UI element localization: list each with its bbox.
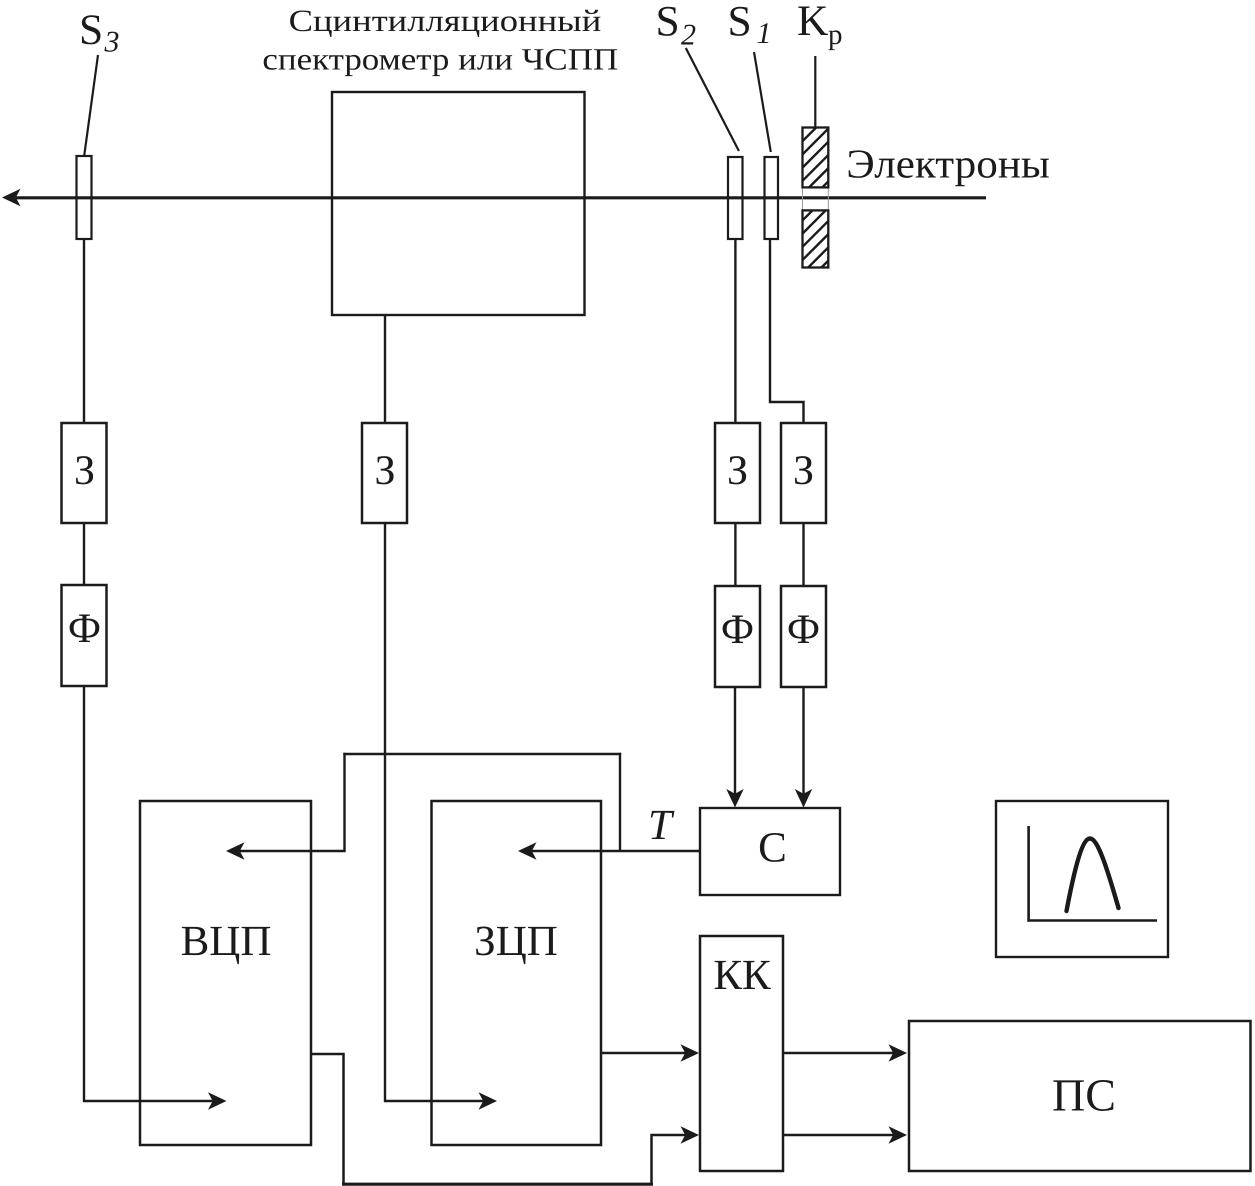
wire KK to PS lower xyxy=(783,1134,894,1136)
wire T branch up xyxy=(619,753,621,851)
svg-text:З: З xyxy=(74,448,95,494)
svg-text:S: S xyxy=(656,0,680,46)
converter block VCP xyxy=(140,801,311,1145)
wire T branch down xyxy=(343,753,345,851)
arrowhead into C from S1 xyxy=(795,789,812,808)
svg-text:З: З xyxy=(793,448,814,494)
leader line S1 xyxy=(754,52,771,152)
computer block PS xyxy=(909,1021,1251,1171)
svg-text:p: p xyxy=(828,19,843,51)
svg-text:2: 2 xyxy=(681,19,696,52)
collimator Kp bottom block xyxy=(803,210,829,267)
arrowhead into PS upper xyxy=(889,1044,908,1061)
collimator Kp outer outline xyxy=(803,128,829,268)
delay block Z (S2 channel) xyxy=(715,423,760,523)
display peak curve xyxy=(1067,839,1119,912)
wire F (S3) down and right into VCP xyxy=(84,686,214,1101)
svg-text:Сцинтилляционный: Сцинтилляционный xyxy=(289,3,602,38)
leader line S3 xyxy=(84,55,98,155)
arrowhead into VCP bottom xyxy=(208,1092,227,1109)
arrowhead into C from S2 xyxy=(726,789,743,808)
arrowhead into VCP xyxy=(226,842,245,859)
wire beam line (electron beam axis) xyxy=(16,196,986,199)
delay block Z (spectrometer channel) xyxy=(362,423,407,523)
detector S3 xyxy=(77,156,92,239)
delay block Z (S3 channel) xyxy=(62,423,107,523)
wire KK to PS upper xyxy=(783,1052,894,1054)
svg-text:Ф: Ф xyxy=(787,607,820,653)
arrowhead into KK lower xyxy=(681,1126,700,1143)
svg-text:З: З xyxy=(727,448,748,494)
svg-text:1: 1 xyxy=(757,17,772,50)
svg-text:Ф: Ф xyxy=(68,606,101,652)
svg-text:ЗЦП: ЗЦП xyxy=(474,918,558,965)
detector S1 xyxy=(765,157,779,239)
collimator Kp top block xyxy=(803,128,829,188)
wire Z to F (S2 channel) xyxy=(734,523,736,586)
detector S2 xyxy=(728,157,743,239)
wire T from C to ZCP xyxy=(532,850,700,852)
display monitor box xyxy=(996,801,1168,957)
wire S2 detector to delay xyxy=(734,239,736,423)
svg-text:T: T xyxy=(648,802,675,849)
collimator Kp hatching xyxy=(803,99,833,300)
svg-text:3: 3 xyxy=(104,26,120,59)
display x axis xyxy=(1028,919,1158,922)
beam arrowhead left xyxy=(2,189,21,206)
converter block ZCP xyxy=(432,801,602,1145)
arrowhead into KK upper xyxy=(681,1044,700,1061)
wire S1 detector jog to delay xyxy=(770,239,804,423)
svg-text:КК: КК xyxy=(713,952,771,999)
svg-text:S: S xyxy=(728,0,752,46)
wire F (S2) down into C xyxy=(734,687,736,795)
wire bottom long segment xyxy=(342,1183,653,1186)
wire up to KK lower input xyxy=(652,1135,687,1185)
svg-text:S: S xyxy=(79,6,103,54)
shaper block F (S1 channel) xyxy=(781,586,826,687)
arrowhead into ZCP bottom xyxy=(479,1092,498,1109)
arrowhead into PS lower xyxy=(889,1126,908,1143)
svg-text:Ф: Ф xyxy=(721,607,754,653)
svg-text:ВЦП: ВЦП xyxy=(181,918,272,965)
wire F (S1) down into C xyxy=(802,687,804,795)
svg-text:ПС: ПС xyxy=(1052,1070,1116,1121)
svg-text:З: З xyxy=(374,448,395,494)
coincidence block C xyxy=(700,808,840,895)
shaper block F (S3 channel) xyxy=(62,585,107,686)
wire S3 detector to delay xyxy=(83,239,85,423)
leader line Kp xyxy=(814,56,816,127)
svg-text:K: K xyxy=(797,0,828,45)
shaper block F (S2 channel) xyxy=(715,586,760,687)
spectrometer box xyxy=(332,92,585,315)
svg-text:С: С xyxy=(758,825,787,872)
svg-text:спектрометр или ЧСПП: спектрометр или ЧСПП xyxy=(262,42,618,77)
wire T branch into VCP xyxy=(240,850,346,852)
wire ZCP output to KK xyxy=(601,1052,686,1054)
wire VCP output down around to KK xyxy=(311,1054,344,1183)
svg-text:Электроны: Электроны xyxy=(846,141,1050,187)
wire Z to F (S1 channel) xyxy=(802,523,804,586)
wire spectrometer to delay xyxy=(384,315,386,423)
leader line S2 xyxy=(686,48,739,151)
display y axis xyxy=(1027,826,1030,922)
wire Z (spectrometer) down and right into ZCP xyxy=(385,523,484,1101)
arrowhead into ZCP xyxy=(518,842,537,859)
wire Z to F (S3 channel) xyxy=(83,523,85,585)
delay block Z (S1 channel) xyxy=(781,423,826,523)
wire T branch across top xyxy=(343,753,621,755)
crate controller block KK xyxy=(700,936,783,1171)
